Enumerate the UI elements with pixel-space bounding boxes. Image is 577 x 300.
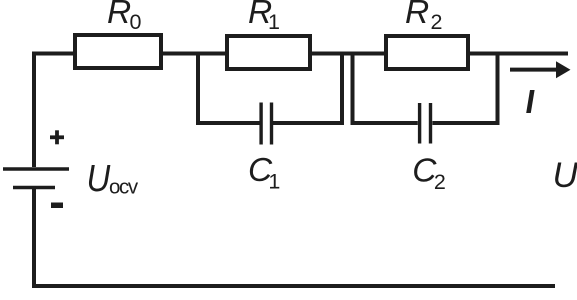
battery minus sign: [51, 203, 63, 209]
svg-text:1: 1: [268, 10, 280, 34]
resistor R0: [75, 35, 161, 68]
svg-text:U: U: [87, 157, 111, 200]
node C junction to C2 left: [351, 54, 355, 124]
wire left vertical upper: [32, 52, 36, 168]
node B junction to C1 right: [340, 54, 344, 124]
resistor R2: [386, 36, 468, 69]
node A junction to C1 left: [196, 54, 200, 124]
resistor R1: [227, 36, 310, 69]
battery U_ocv: [3, 169, 69, 188]
svg-text:ocv: ocv: [109, 175, 139, 198]
capacitor C2: [420, 103, 431, 144]
svg-text:R: R: [405, 0, 429, 31]
battery plus sign: [50, 130, 64, 144]
svg-text:1: 1: [268, 169, 280, 193]
wire C2 branch left: [351, 121, 418, 125]
current arrow: [510, 61, 571, 78]
svg-text:2: 2: [431, 10, 443, 34]
wire bottom horizontal: [32, 284, 555, 288]
label I: [526, 90, 534, 113]
wire C1 branch right: [273, 121, 345, 125]
wire C2 branch right: [432, 121, 499, 125]
svg-text:U: U: [553, 156, 577, 195]
wire C1 branch left: [196, 121, 260, 125]
wire left vertical lower: [32, 189, 36, 288]
capacitor C1: [261, 103, 271, 145]
wire top horizontal: [32, 52, 568, 56]
svg-text:R: R: [107, 0, 131, 31]
svg-text:2: 2: [434, 170, 446, 194]
node D junction to C2 right: [496, 54, 500, 124]
svg-text:0: 0: [130, 10, 142, 34]
